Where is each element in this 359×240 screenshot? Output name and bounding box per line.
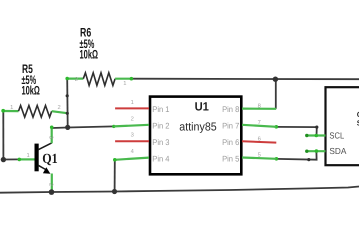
pin 6 stub (red, unconnected) (242, 141, 276, 142)
svg-text:Pin 8: Pin 8 (222, 105, 240, 114)
junction top rail-pin8 node (273, 77, 278, 82)
pin 1 stub (red, unconnected) (115, 107, 149, 109)
resistor R6 (65, 73, 133, 87)
svg-text:5: 5 (258, 153, 261, 159)
svg-text:6: 6 (258, 135, 261, 142)
wire pin8 up to top rail (275, 79, 277, 109)
junction emitter-bottom node (49, 189, 55, 195)
pin labels Pin 1-8 (152, 105, 239, 163)
wire pin5 to SDA (276, 151, 316, 160)
wire pin4 vertical down to bottom rail (114, 160, 116, 192)
svg-text:Pin 6: Pin 6 (222, 138, 240, 147)
wire bottom rail (0, 187, 359, 193)
IC U2 body (right, clipped) (326, 87, 359, 165)
svg-text:7: 7 (258, 120, 261, 126)
wire left vertical R5 pin1 to Q1 base (2, 111, 4, 160)
svg-text:Pin 1: Pin 1 (152, 105, 170, 114)
svg-text:Pin 7: Pin 7 (222, 122, 240, 131)
svg-text:8: 8 (258, 103, 261, 110)
svg-text:2: 2 (75, 76, 78, 83)
svg-text:10kΩ: 10kΩ (80, 47, 99, 61)
junction base node (1, 157, 6, 162)
wire pin7 to SCL (276, 127, 317, 135)
pin 8 wire (green) (242, 107, 276, 109)
pin 3 stub (red, unconnected) (115, 140, 149, 142)
svg-text:1: 1 (123, 81, 126, 87)
pin 2 wire (green) (114, 125, 149, 127)
svg-text:2: 2 (47, 183, 53, 186)
svg-text:U1: U1 (195, 100, 210, 114)
junction pin4-bottom node (112, 189, 117, 194)
svg-text:2: 2 (131, 115, 134, 122)
wire top rail from R6 to right edge (131, 78, 359, 81)
svg-text:Pin 5: Pin 5 (222, 154, 240, 163)
svg-text:1: 1 (27, 153, 30, 159)
node pin5 wire end (275, 157, 279, 161)
svg-text:1: 1 (10, 105, 13, 111)
node wire segment join (66, 94, 69, 97)
node pin7 bend (315, 126, 318, 129)
node pin7 wire end (275, 125, 279, 129)
wire collector run to U1 pin2 (52, 126, 114, 128)
wire vertical R6 lead down to junction (66, 79, 69, 128)
label U2 partial text (357, 110, 359, 128)
svg-text:Q1: Q1 (42, 152, 57, 167)
label R5 value (22, 62, 40, 98)
svg-text:Pin 2: Pin 2 (152, 122, 170, 131)
svg-text:10kΩ: 10kΩ (22, 84, 40, 98)
svg-text:Pin 4: Pin 4 (152, 154, 170, 163)
svg-text:attiny85: attiny85 (179, 121, 216, 134)
pin 4 wire (green) (115, 158, 149, 160)
IC U1 body (attiny85) (150, 97, 241, 175)
resistor R5 (1, 104, 67, 117)
svg-text:SCL: SCL (329, 130, 344, 140)
transistor Q1 (3, 126, 53, 193)
junction R5/R6/collector node (65, 125, 70, 130)
SCL pin stub (307, 134, 326, 136)
svg-text:3: 3 (131, 132, 134, 139)
label R6 value (80, 26, 99, 62)
pin 5 wire (green) (242, 158, 276, 159)
svg-text:2: 2 (58, 104, 61, 111)
node pin2 wire end (112, 125, 115, 128)
svg-text:SDA: SDA (329, 146, 346, 156)
svg-text:1: 1 (131, 100, 134, 106)
pin 7 wire (green) (242, 125, 276, 127)
SDA pin stub (307, 150, 326, 152)
svg-text:3: 3 (48, 136, 54, 139)
node pin5 mid (307, 158, 310, 161)
node R5 pin2 end (66, 112, 69, 115)
svg-text:Pin 3: Pin 3 (152, 138, 170, 147)
